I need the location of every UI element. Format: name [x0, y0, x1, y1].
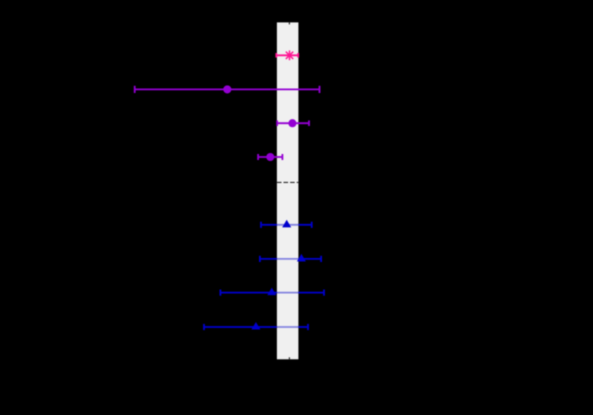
- row 3 circle marker: [288, 119, 296, 127]
- row 6 triangle marker: [297, 254, 306, 262]
- row 4 (purple) error bar: [258, 154, 282, 160]
- row 1 asterisk marker: [284, 50, 294, 60]
- row 4 circle marker: [266, 153, 274, 161]
- top axis tick: [288, 22, 290, 24]
- row 3 (purple) error bar: [277, 120, 309, 126]
- row 6 (blue) error bar: [260, 256, 321, 262]
- row 7 triangle marker: [267, 288, 276, 296]
- bottom axis tick: [288, 357, 290, 359]
- row 5 (blue) error bar: [261, 222, 312, 228]
- row 8 (blue) error bar: [204, 324, 308, 330]
- row 2 (purple) error bar: [135, 86, 320, 93]
- dashed separator line: [277, 181, 299, 183]
- confidence band: [277, 22, 299, 359]
- row 8 triangle marker: [251, 322, 260, 330]
- row 2 circle marker: [223, 85, 231, 93]
- row 7 (blue) error bar: [220, 290, 324, 296]
- row 1 (pink) error bar: [276, 53, 298, 58]
- row 5 triangle marker: [282, 220, 291, 228]
